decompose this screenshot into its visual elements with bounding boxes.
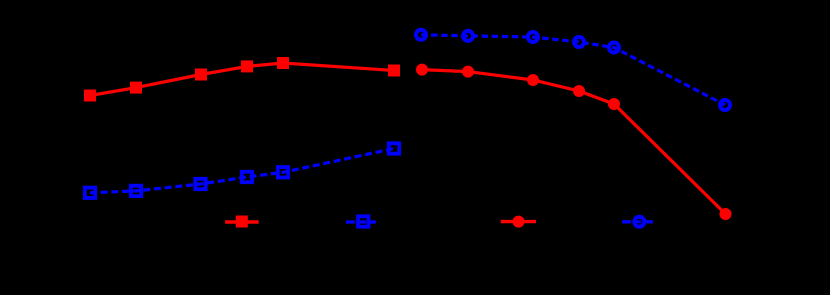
left legend: blue entry (dashed line + open square) bbox=[346, 216, 376, 226]
left plot: red filled square markers bbox=[84, 57, 400, 102]
right legend: blue entry (dashed line + open circle) bbox=[622, 217, 653, 227]
left plot: blue open square markers bbox=[85, 143, 399, 198]
right plot: red solid series line bbox=[422, 70, 726, 214]
right plot: blue dashed series line bbox=[421, 35, 725, 105]
right legend: red entry (line + filled circle) bbox=[501, 216, 536, 228]
left plot: red solid series line bbox=[90, 63, 394, 96]
left legend: red entry (line + filled square) bbox=[225, 216, 259, 228]
left plot: blue dashed series line bbox=[90, 149, 394, 193]
right plot: red filled circle markers bbox=[416, 64, 732, 220]
right plot: blue open circle markers bbox=[416, 30, 730, 110]
